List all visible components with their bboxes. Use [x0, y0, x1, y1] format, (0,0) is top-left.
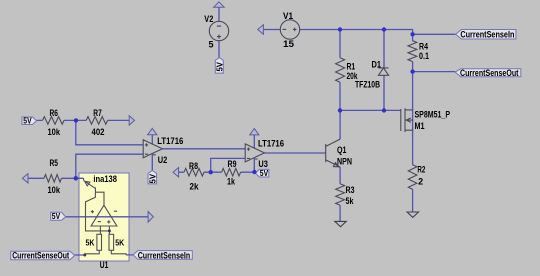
svg-text:NPN: NPN — [337, 157, 352, 167]
svg-text:10k: 10k — [48, 127, 61, 137]
svg-text:LT1716: LT1716 — [157, 136, 183, 146]
svg-text:R7: R7 — [93, 108, 102, 118]
svg-text:TFZ10B: TFZ10B — [355, 80, 380, 90]
svg-text:5V: 5V — [214, 62, 224, 72]
svg-text:R3: R3 — [346, 185, 355, 195]
svg-text:0.1: 0.1 — [419, 51, 429, 61]
svg-text:5V: 5V — [23, 115, 32, 125]
svg-text:M1: M1 — [415, 121, 425, 131]
svg-text:SP8M51_P: SP8M51_P — [415, 109, 451, 119]
svg-text:10k: 10k — [48, 185, 61, 195]
svg-text:5: 5 — [209, 39, 214, 49]
svg-text:15: 15 — [283, 39, 294, 49]
svg-text:1k: 1k — [227, 176, 236, 186]
svg-text:R2: R2 — [417, 165, 425, 175]
svg-text:2k: 2k — [190, 182, 200, 192]
svg-text:U1: U1 — [100, 260, 109, 270]
svg-text:CurrentSenseIn: CurrentSenseIn — [460, 28, 514, 39]
svg-text:5K: 5K — [115, 238, 125, 248]
svg-text:402: 402 — [92, 127, 105, 137]
svg-text:V1: V1 — [283, 11, 293, 21]
svg-text:5V: 5V — [260, 168, 269, 178]
svg-text:5k: 5k — [346, 196, 355, 206]
svg-text:R5: R5 — [50, 158, 59, 168]
svg-text:CurrentSenseOut: CurrentSenseOut — [12, 250, 69, 261]
svg-text:5V: 5V — [147, 174, 157, 184]
svg-text:Q1: Q1 — [337, 145, 347, 155]
svg-text:V2: V2 — [204, 14, 213, 24]
svg-text:2: 2 — [418, 176, 423, 186]
svg-text:D1: D1 — [372, 59, 382, 69]
svg-text:R1: R1 — [347, 62, 356, 72]
svg-text:5K: 5K — [86, 238, 96, 248]
svg-text:U2: U2 — [158, 155, 168, 165]
svg-text:U3: U3 — [258, 159, 268, 169]
svg-text:CurrentSenseOut: CurrentSenseOut — [460, 67, 519, 78]
svg-text:5V: 5V — [52, 211, 61, 221]
svg-text:LT1716: LT1716 — [258, 138, 284, 148]
svg-text:CurrentSenseIn: CurrentSenseIn — [138, 249, 191, 260]
svg-text:ina138: ina138 — [93, 174, 117, 184]
svg-text:R6: R6 — [50, 108, 59, 118]
svg-text:R9: R9 — [228, 159, 237, 169]
svg-text:R8: R8 — [189, 161, 198, 171]
